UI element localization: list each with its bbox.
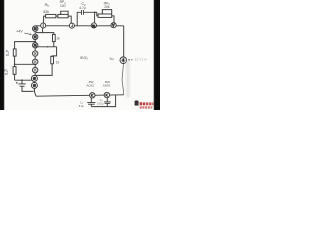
wire RP1 to node2: [68, 16, 71, 23]
meter 2: [111, 23, 116, 28]
bridge resistor Rc: [51, 56, 54, 63]
wire RP2 to meter2: [112, 16, 114, 23]
main top wire: [35, 25, 124, 27]
capacitor C5: [104, 101, 111, 103]
svg-text:20k: 20k: [104, 5, 110, 9]
bridge2 top lead: [52, 47, 57, 57]
capacitor C5 bottom lead: [106, 103, 108, 106]
bridge tap wire mid: [36, 46, 57, 48]
watermark dark glyph: [135, 100, 139, 105]
resistor Rb2: [46, 14, 56, 17]
capacitor C2: [82, 10, 84, 15]
battery plus mark: [128, 59, 132, 61]
battery glyph: [121, 58, 126, 63]
right bus wire: [123, 26, 125, 57]
svg-text:0.02μ: 0.02μ: [97, 102, 104, 106]
svg-text:lB3): lB3): [80, 55, 88, 60]
milliammeter mA: [91, 23, 96, 28]
bridge Rc bottom lead: [36, 64, 52, 76]
svg-text:‰c: ‰c: [110, 57, 115, 61]
capacitor C3: [18, 83, 26, 85]
left resistor R6 lead: [14, 64, 16, 66]
node circle 1: [41, 23, 46, 28]
node 1 glyph: [42, 24, 44, 27]
svg-text:Rb:: Rb:: [45, 2, 50, 8]
svg-text:m: m: [92, 24, 95, 28]
RP1 wiper bracket: [61, 11, 68, 14]
svg-text:1k: 1k: [56, 61, 60, 65]
left resistor R5: [13, 49, 16, 56]
svg-text:AD61: AD61: [103, 84, 111, 88]
capacitor C3 top lead: [21, 80, 23, 84]
+4V arrow: [24, 33, 31, 34]
capacitor C4 bottom lead: [90, 104, 92, 106]
page curl shadow stripe: [126, 60, 129, 98]
svg-text:83k: 83k: [43, 10, 49, 14]
dark device D1: [31, 75, 37, 81]
svg-text:AD61: AD61: [86, 84, 94, 88]
svg-text:20: 20: [5, 72, 9, 76]
left lamp chain wire: [34, 26, 36, 96]
left tap wire top: [15, 42, 36, 49]
RP1 wiper arrowhead: [60, 13, 61, 14]
dark device D2: [31, 82, 37, 88]
battery meter circle: [120, 57, 127, 64]
svg-text:81T1lV: 81T1lV: [135, 58, 148, 62]
left R5 bottom lead: [14, 56, 16, 64]
lamp L5: [33, 59, 38, 64]
watermark red text row 1: [140, 102, 154, 108]
svg-text:20: 20: [6, 53, 10, 57]
left resistor R6: [13, 67, 16, 75]
bottom-left tap wire: [15, 79, 32, 81]
wire node1 riser: [44, 16, 46, 23]
junction dot left mid: [14, 64, 16, 66]
right page border bar: [153, 0, 160, 110]
lamp L2: [33, 34, 38, 39]
capacitor C3 bottom lead: [22, 86, 34, 91]
lamp L4: [33, 51, 38, 56]
bridge tap wire 1 top: [36, 33, 54, 35]
bridge Ra bottom lead: [53, 42, 55, 47]
svg-text:+4V: +4V: [16, 30, 23, 34]
RP2 wiper bracket: [102, 10, 111, 15]
bottom wire: [36, 95, 124, 96]
lamp L6: [33, 67, 38, 72]
potentiometer RP2: [98, 14, 112, 17]
node circle 2: [69, 23, 74, 28]
capacitor C5 lead from B2: [106, 98, 108, 102]
svg-text:8.0μ: 8.0μ: [79, 104, 85, 108]
C3 plus sign: [16, 82, 18, 84]
transistor B2 circle: [104, 92, 109, 97]
junction dot mid tap: [47, 46, 49, 48]
left mid tap wire: [15, 63, 36, 65]
junction dot at C2/RP2: [94, 12, 96, 14]
junction meter1 riser: [94, 12, 96, 22]
junction dot cap top: [21, 79, 23, 81]
left R6 bottom lead: [14, 74, 16, 80]
bottom cap rail: [91, 95, 115, 107]
capacitor C4 lead from B1: [90, 98, 92, 102]
lamp L1: [33, 26, 38, 31]
RP2 wiper arrowhead: [102, 13, 103, 14]
wire capacitor branch riser: [77, 12, 81, 25]
wire between Rb2 and RP1: [56, 15, 58, 17]
svg-text:1k: 1k: [56, 36, 60, 40]
capacitor C4: [87, 102, 95, 104]
transistor B1 circle: [90, 93, 95, 98]
svg-text:100: 100: [60, 4, 66, 8]
node1 bottom stub: [42, 28, 44, 33]
node 2 glyph: [71, 24, 73, 27]
lamp L3: [33, 43, 38, 48]
potentiometer RP1: [58, 14, 68, 17]
svg-text:4.7μ: 4.7μ: [79, 6, 85, 10]
wire C2 to RP2: [84, 12, 98, 16]
bridge resistor Ra: [53, 34, 56, 41]
watermark red text row 2: [140, 106, 142, 108]
